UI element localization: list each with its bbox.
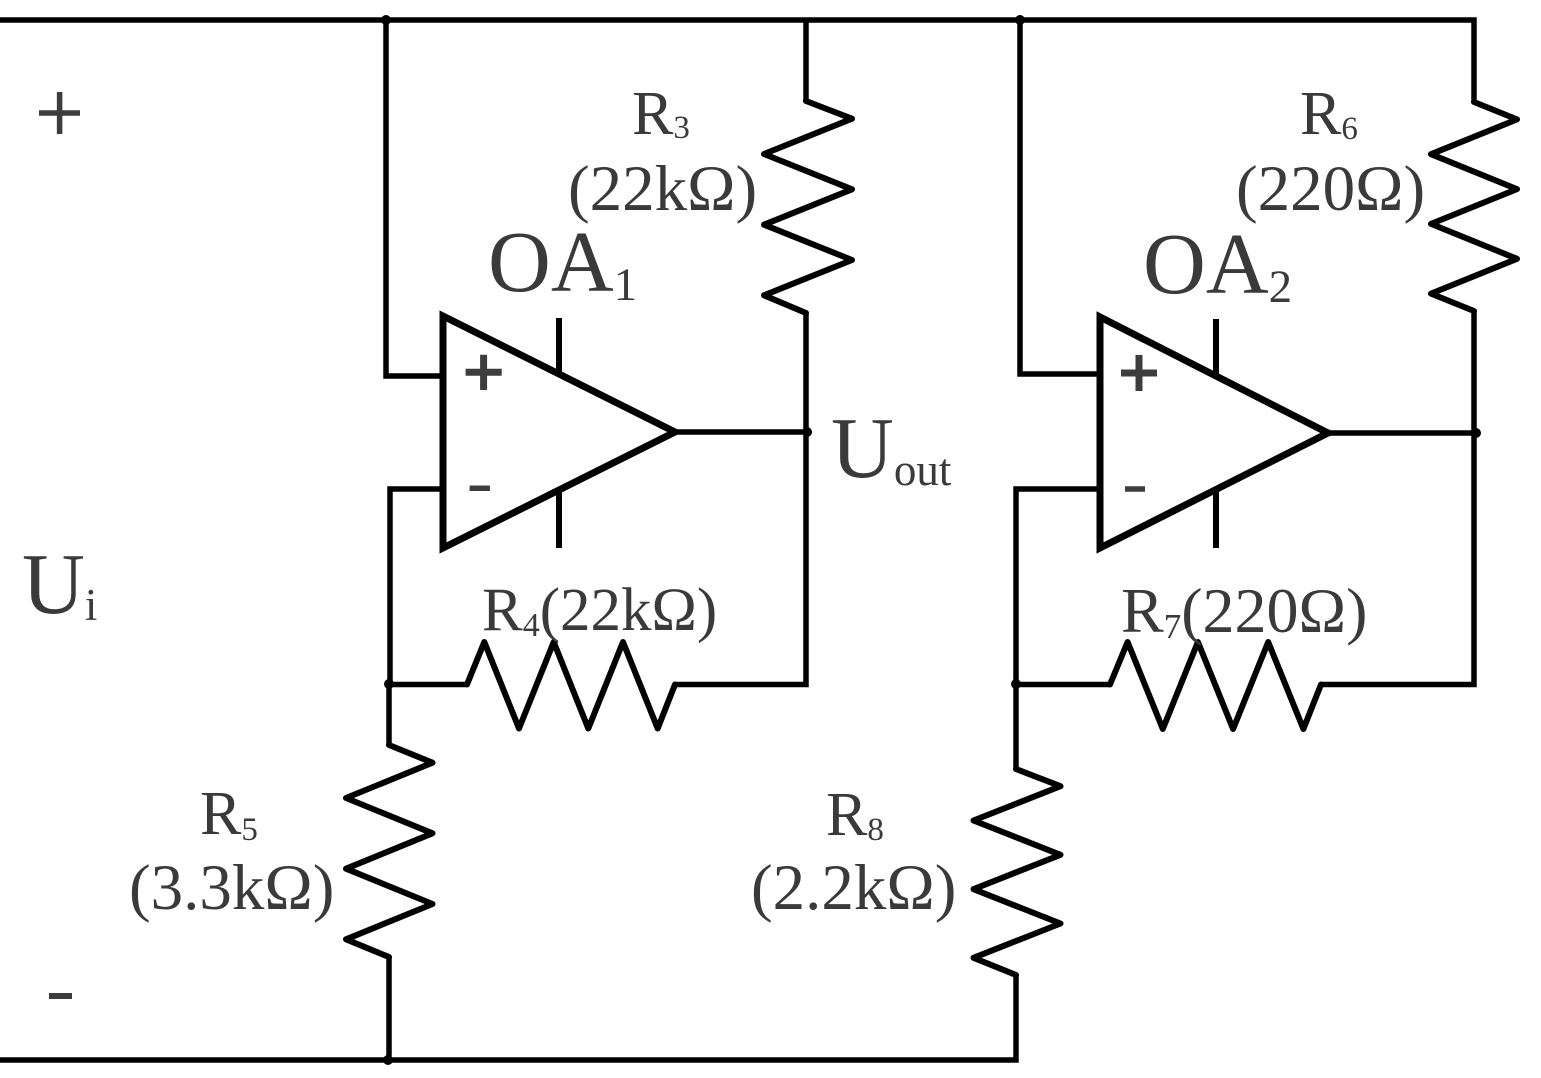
wire R8 top lead from node C	[1013, 684, 1019, 769]
wire node D down to R7 right lead	[1321, 433, 1474, 685]
wire R3 top lead from top rail	[803, 20, 809, 101]
pin - OA1 inverting	[470, 485, 490, 491]
label - input terminal	[49, 993, 72, 999]
wire R5 bottom lead to bottom rail	[386, 957, 392, 1060]
node C junction dot	[1011, 679, 1021, 689]
resistor R3 zigzag	[764, 101, 852, 313]
op-amp OA2	[1100, 317, 1328, 548]
svg-text:R4(22kΩ): R4(22kΩ)	[482, 577, 717, 644]
wire top rail (+) with corner into R6 top lead	[0, 20, 1474, 102]
wire OA2 inverting input down to node C	[1016, 489, 1102, 684]
label + input terminal	[39, 92, 80, 134]
resistor R8 zigzag	[974, 769, 1061, 975]
svg-text:OA1: OA1	[488, 213, 637, 311]
wire R4 left lead from node A	[389, 682, 467, 688]
svg-text:OA2: OA2	[1143, 215, 1292, 313]
op-amp OA1	[443, 316, 675, 548]
svg-text:R7(220Ω): R7(220Ω)	[1121, 575, 1367, 646]
svg-text:(3.3kΩ): (3.3kΩ)	[129, 852, 334, 924]
wire R7 left lead from node C	[1016, 682, 1110, 688]
wire R5 top lead from node A	[386, 684, 392, 745]
node junction dot top-middle	[1015, 15, 1025, 25]
svg-text:R8: R8	[826, 781, 884, 849]
pin + OA1 non-inverting	[466, 355, 502, 390]
wire OA2 non-inverting input from top rail	[1020, 20, 1102, 374]
svg-text:Ui: Ui	[22, 535, 97, 632]
svg-text:(2.2kΩ): (2.2kΩ)	[751, 852, 956, 924]
node A junction dot	[384, 679, 394, 689]
resistor R4 zigzag	[467, 642, 675, 729]
resistor R7 zigzag	[1110, 642, 1321, 729]
svg-text:Uout: Uout	[831, 399, 952, 496]
wire R6 bottom lead to node D	[1471, 311, 1477, 433]
node B junction dot OA1 output	[802, 427, 812, 437]
wire OA1 inverting input down to node A	[390, 489, 445, 684]
node D junction dot OA2 output	[1471, 428, 1481, 438]
resistor R6 zigzag	[1431, 102, 1517, 311]
wire R3 bottom lead to node B	[803, 313, 809, 432]
node junction dot bottom rail	[383, 1055, 393, 1065]
svg-text:(220Ω): (220Ω)	[1236, 153, 1425, 225]
wire bottom rail (-) with corner into R8 bottom lead	[0, 975, 1016, 1060]
resistor R5 zigzag	[346, 745, 433, 957]
wire node B down to R4 right lead	[675, 432, 806, 685]
wire OA1 non-inverting input from top rail	[386, 20, 445, 376]
pin - OA2 inverting	[1125, 486, 1145, 492]
wire OA1 output to node B	[675, 429, 807, 435]
svg-text:(22kΩ): (22kΩ)	[568, 153, 757, 225]
pin + OA2 non-inverting	[1121, 355, 1157, 391]
wire OA2 output to node D	[1328, 430, 1476, 436]
svg-text:R5: R5	[200, 780, 258, 848]
node junction dot top-left	[381, 15, 391, 25]
svg-text:R6: R6	[1300, 80, 1358, 148]
svg-text:R3: R3	[632, 80, 690, 148]
